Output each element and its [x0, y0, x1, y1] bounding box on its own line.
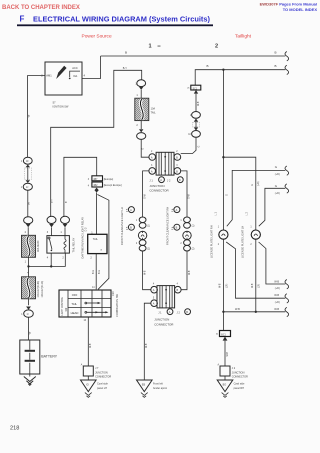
svg-text:TAIL: TAIL — [71, 302, 77, 306]
short pin box SC1 — [191, 85, 201, 90]
svg-text:1J: 1J — [26, 187, 28, 189]
short pin BC1 box — [220, 331, 231, 337]
female circle — [24, 310, 34, 317]
female circle lower — [192, 131, 201, 138]
clearance RH connector circles top — [184, 217, 191, 223]
ground triangle BO — [217, 380, 233, 392]
LP RH bulb — [219, 230, 228, 239]
svg-text:W-B: W-B — [220, 283, 222, 288]
head row contact — [85, 311, 87, 313]
wire B-G fuse to comb switch — [95, 254, 97, 290]
svg-text:ELECTRICAL WIRING DIAGRAM (Sys: ELECTRICAL WIRING DIAGRAM (System Circui… — [33, 14, 210, 23]
tail row contact — [85, 302, 87, 304]
svg-text:BO: BO — [223, 384, 227, 387]
wire: branch to LP LH — [223, 157, 255, 230]
male triangle below — [139, 87, 143, 90]
fuse 100A ALT body — [22, 277, 36, 299]
node dot — [27, 265, 29, 267]
svg-text:JUNCTION: JUNCTION — [154, 318, 169, 322]
svg-text:FRONT CLEARANCE LIGHT LH: FRONT CLEARANCE LIGHT LH — [120, 207, 124, 245]
branch LH to continuation — [259, 188, 286, 226]
svg-text:W-B: W-B — [189, 270, 191, 275]
relay coil — [64, 236, 66, 254]
svg-text:4B7: 4B7 — [93, 179, 98, 181]
svg-text:G: G — [252, 184, 254, 186]
branch RH to continuation — [227, 170, 285, 226]
svg-text:TAIL RELAY: TAIL RELAY — [71, 238, 75, 253]
svg-text:IO: IO — [86, 384, 89, 387]
svg-text:1: 1 — [149, 44, 152, 50]
connector triangles below 4B2 — [94, 188, 98, 191]
svg-text:J 2: J 2 — [232, 367, 236, 370]
J1 right top circle B — [174, 154, 181, 161]
svg-text:B: B — [125, 51, 127, 55]
J1 left bottom circle A — [149, 168, 156, 175]
ground chevrons — [141, 393, 148, 398]
wire fuse output to junction connector 1 — [141, 139, 149, 157]
ignition switch contact dot — [69, 78, 71, 80]
svg-text:(1): (1) — [147, 226, 150, 228]
svg-text:W: W — [27, 115, 31, 118]
wire: main B bus 1 — [101, 55, 286, 57]
TOPWIRES — [101, 51, 289, 86]
svg-text:ACC: ACC — [72, 66, 78, 70]
connector circle above relay pin1 — [61, 216, 70, 223]
svg-text:L 1: L 1 — [214, 212, 217, 216]
svg-text:B-G: B-G — [93, 270, 95, 274]
svg-text:JUNCTION: JUNCTION — [95, 371, 108, 374]
svg-text:L 2: L 2 — [246, 212, 249, 216]
svg-text:(1): (1) — [192, 226, 195, 228]
svg-text:LIGHT CONTROL: LIGHT CONTROL — [62, 296, 64, 315]
svg-text:SC1: SC1 — [193, 88, 198, 90]
svg-text:W-B: W-B — [252, 283, 254, 288]
wire down — [195, 94, 197, 112]
tail relay box — [47, 236, 70, 254]
wire: B-Y from tail fuse to light control drop — [51, 70, 142, 217]
branch diagonal to comb switch — [97, 195, 109, 290]
wire comb switch to J7 ground — [87, 317, 89, 366]
relay contact — [48, 237, 50, 239]
svg-text:4B2: 4B2 — [93, 185, 98, 187]
svg-text:Front left: Front left — [153, 383, 163, 386]
svg-text:C13: C13 — [112, 291, 115, 296]
BOTTOM — [81, 331, 249, 398]
clearance RH bulb — [183, 231, 191, 239]
male triangle down — [194, 127, 198, 130]
svg-text:B: B — [207, 64, 209, 68]
svg-text:W-B: W-B — [198, 101, 200, 106]
svg-text:FRONT CLEARANCE LIGHT RH: FRONT CLEARANCE LIGHT RH — [165, 207, 169, 245]
wire BC1 to J2 junction — [224, 341, 226, 366]
ground chevrons — [85, 393, 92, 398]
svg-text:(1F): (1F) — [226, 284, 228, 288]
wire to battery — [28, 317, 30, 340]
svg-text:B-Y: B-Y — [123, 67, 128, 70]
svg-text:JUNCTION: JUNCTION — [232, 371, 245, 374]
fuse 10A TAIL body — [135, 98, 149, 120]
svg-text:(+D): (+D) — [275, 301, 280, 304]
svg-text:10A: 10A — [151, 108, 156, 111]
WB collector wire — [223, 311, 285, 313]
continuation squiggle G plus D upper — [285, 166, 289, 175]
svg-text:[Except Europe]: [Except Europe] — [104, 184, 122, 187]
svg-text:W: W — [27, 332, 31, 335]
node dot at branch — [222, 156, 224, 158]
male triangle up into SC1 — [194, 90, 198, 94]
svg-text:Taillight: Taillight — [235, 33, 252, 39]
female circle upper — [192, 112, 201, 119]
svg-text:BACK TO CHAPTER INDEX: BACK TO CHAPTER INDEX — [2, 5, 80, 11]
svg-text:(2): (2) — [192, 249, 195, 251]
connector circle above relay pin3 — [47, 216, 56, 223]
wire junction2 to EB ground — [144, 303, 151, 380]
svg-text:IGNITION SW: IGNITION SW — [53, 105, 69, 108]
svg-text:(+D): (+D) — [275, 173, 280, 176]
clearance LH connector circles top — [139, 217, 146, 223]
svg-text:G: G — [199, 146, 201, 148]
svg-text:(2): (2) — [147, 249, 150, 251]
J2 left bottom circle A — [151, 300, 158, 307]
wire fuse to node — [28, 257, 30, 277]
male triangle down — [139, 129, 143, 132]
clearance LH connector circles bottom — [139, 240, 146, 246]
svg-text:40A MAIN: 40A MAIN — [37, 241, 40, 252]
fuse 40A MAIN body — [22, 235, 36, 257]
wire: B bus 2 — [195, 70, 285, 86]
svg-text:BC1: BC1 — [221, 334, 226, 336]
wire clearance RH to junction 2 — [181, 251, 187, 290]
svg-text:fender apron: fender apron — [153, 387, 168, 390]
clearance LH bulb — [138, 231, 146, 239]
svg-text:CONNECTOR: CONNECTOR — [149, 188, 169, 192]
svg-text:IG1: IG1 — [73, 74, 78, 78]
svg-text:(+D): (+D) — [258, 181, 260, 186]
svg-text:TAIL: TAIL — [151, 112, 157, 115]
wire into fuse — [140, 90, 142, 98]
ignition switch S7 box — [45, 62, 82, 95]
node dot relay left — [50, 265, 52, 267]
svg-text:G-W: G-W — [144, 193, 146, 199]
male triangle up — [194, 118, 198, 121]
wire below fuse — [28, 299, 30, 305]
wire down to 40A fuse connector — [27, 190, 29, 217]
svg-text:W-B: W-B — [235, 308, 240, 311]
svg-text:W-B: W-B — [90, 343, 92, 348]
wire clearance LH to junction 2 — [143, 251, 151, 290]
svg-text:panel RH: panel RH — [234, 387, 245, 390]
DRL connector 4B2 box — [92, 182, 103, 187]
J2 left top circle A — [151, 286, 158, 293]
svg-text:W-B: W-B — [227, 352, 229, 357]
J1 right bottom circle B — [174, 168, 181, 175]
svg-text:G: G — [142, 148, 144, 150]
svg-text:218: 218 — [10, 426, 19, 432]
male triangle down — [26, 224, 31, 227]
ground chevrons — [222, 393, 229, 398]
svg-text:Cowl side: Cowl side — [97, 383, 108, 386]
svg-text:J 7: J 7 — [95, 367, 99, 370]
RIGHTCOL — [120, 80, 201, 380]
wire: node to tail relay — [29, 253, 66, 266]
svg-text:LICENSE PLATE LIGHT RH: LICENSE PLATE LIGHT RH — [209, 225, 213, 258]
svg-text:(+D): (+D) — [275, 287, 280, 290]
svg-text:W: W — [27, 202, 31, 205]
battery ground symbol — [29, 374, 31, 377]
continuation squiggle WB upper — [285, 280, 289, 289]
connector circle above 40A fuse — [24, 217, 33, 224]
continuation squiggle G plus D lower — [285, 184, 289, 193]
connector circle above 10A tail fuse — [137, 80, 146, 87]
LICENSE PLATE LIGHTS — [209, 70, 288, 331]
svg-text:(+D): (+D) — [275, 192, 280, 195]
LP LH bulb — [251, 230, 260, 239]
svg-text:120A ALT(D-1D): 120A ALT(D-1D) — [41, 281, 44, 298]
svg-text:G-W: G-W — [189, 193, 191, 199]
male triangle down — [26, 180, 30, 183]
battery internal plates — [29, 340, 31, 374]
wire: IG1 output to bus1 — [82, 56, 101, 78]
svg-text:AM1: AM1 — [46, 73, 52, 77]
inner column lines — [68, 290, 102, 317]
J2 right top circle B — [175, 286, 182, 293]
svg-text:CONNECTOR: CONNECTOR — [154, 322, 174, 326]
ground triangle IO — [81, 380, 97, 392]
J1 left top circle A — [149, 154, 156, 161]
continuation squiggle wire1 — [285, 52, 289, 61]
triangle below right circle — [63, 224, 68, 227]
svg-text:[Europe]: [Europe] — [104, 178, 114, 181]
wire below fuse — [140, 121, 142, 129]
svg-text:EB: EB — [142, 384, 146, 387]
male triangle below BC1 — [223, 337, 228, 341]
continuation squiggle wire2 — [285, 65, 289, 74]
svg-text:TAIL: TAIL — [93, 238, 99, 241]
inner row lines — [68, 298, 111, 307]
svg-text:B: B — [275, 64, 277, 68]
svg-text:G: G — [227, 194, 229, 196]
continuation squiggle WB mid — [285, 294, 289, 303]
svg-text:2: 2 — [215, 44, 218, 50]
gray pair link strip — [24, 168, 31, 180]
junction node on bus2 — [222, 69, 224, 71]
wire: bus2 node down to LP RH bulb — [222, 70, 224, 231]
combination switch box — [59, 290, 111, 317]
TAIL fuse box in DRL relay — [88, 234, 107, 253]
wire between pair — [27, 167, 29, 180]
MIDCOL — [47, 67, 142, 366]
male triangle down — [26, 307, 31, 310]
wire J7 box to ground — [87, 376, 89, 380]
DRL connector 4B7 box — [92, 176, 103, 181]
svg-text:OFF: OFF — [72, 293, 78, 297]
J2 ground junction box — [220, 366, 230, 376]
gray pair link strip — [193, 122, 200, 126]
svg-text:CONNECTOR: CONNECTOR — [232, 375, 248, 378]
LEFTCOL — [20, 56, 101, 385]
svg-text:HEAD: HEAD — [71, 311, 79, 315]
svg-text:W-B: W-B — [145, 270, 147, 275]
svg-text:TO MODEL INDEX: TO MODEL INDEX — [283, 7, 318, 12]
svg-text:JUNCTION: JUNCTION — [149, 184, 164, 188]
svg-text:panel LH: panel LH — [97, 387, 107, 390]
svg-text:Cowl side: Cowl side — [234, 383, 245, 386]
svg-text:F: F — [20, 14, 25, 23]
svg-text:CONNECTOR: CONNECTOR — [95, 375, 111, 378]
title underline — [17, 24, 213, 26]
wire stubs into relay — [52, 227, 66, 235]
wire into fuse — [27, 227, 29, 235]
svg-text:LICENSE PLATE LIGHT LH: LICENSE PLATE LIGHT LH — [241, 226, 245, 258]
wire J1 to front clearance RH — [181, 171, 187, 217]
continuation squiggle WB lower — [285, 307, 289, 316]
branch LP LH to continuation — [259, 242, 286, 284]
connector pair 1F on AM1 wire : female circle — [23, 157, 32, 164]
ACC terminal tick — [70, 71, 80, 77]
svg-text:Power Source: Power Source — [82, 33, 112, 39]
junction connector 1 box — [156, 152, 174, 175]
svg-text:(1F): (1F) — [259, 284, 261, 288]
svg-text:D 3: D 3 — [85, 227, 88, 232]
wire relay pin4 down — [50, 253, 52, 266]
wire J2 box to ground — [224, 376, 226, 380]
female circle lower — [23, 183, 32, 190]
svg-text:W-B: W-B — [146, 343, 148, 348]
svg-text:COMBINATION SW: COMBINATION SW — [115, 293, 119, 317]
J7 ground junction box — [83, 366, 93, 376]
female circle — [137, 133, 146, 140]
battery box — [20, 340, 40, 374]
branch LP RH to continuation — [226, 242, 285, 298]
svg-text:B: B — [275, 51, 277, 55]
svg-text:B-Y: B-Y — [52, 199, 54, 203]
triangle below left circle — [49, 224, 54, 227]
wire between pair — [195, 122, 197, 128]
wire LP RH bulb down to WB node — [222, 239, 224, 330]
svg-text:W-B: W-B — [274, 280, 279, 283]
wire down to junction connector 1 — [181, 137, 196, 153]
clearance RH connector circles bottom — [184, 240, 191, 246]
ground triangle EB — [137, 380, 153, 392]
svg-text:W-B: W-B — [274, 294, 279, 297]
ignition switch key symbol — [56, 66, 66, 79]
node dots — [222, 311, 224, 313]
svg-text:DAYTIME RUNNING LIGHT RELAY: DAYTIME RUNNING LIGHT RELAY — [80, 217, 84, 259]
svg-text:BATTERY: BATTERY — [41, 354, 57, 358]
svg-text:100A ALT(D-4D): 100A ALT(D-4D) — [37, 281, 40, 298]
wire: coil feed drop — [64, 157, 97, 217]
wire: AM1 to left drop — [28, 76, 45, 158]
male triangle up — [26, 165, 30, 168]
junction connector 2 box — [157, 286, 175, 308]
wire J1 to front clearance LH — [143, 171, 149, 217]
svg-text:B-G: B-G — [99, 270, 101, 274]
svg-text:W-B: W-B — [274, 308, 279, 311]
wire LP LH bulb down to WB node — [255, 239, 257, 312]
wire 4B to TAIL fuse — [96, 193, 98, 235]
